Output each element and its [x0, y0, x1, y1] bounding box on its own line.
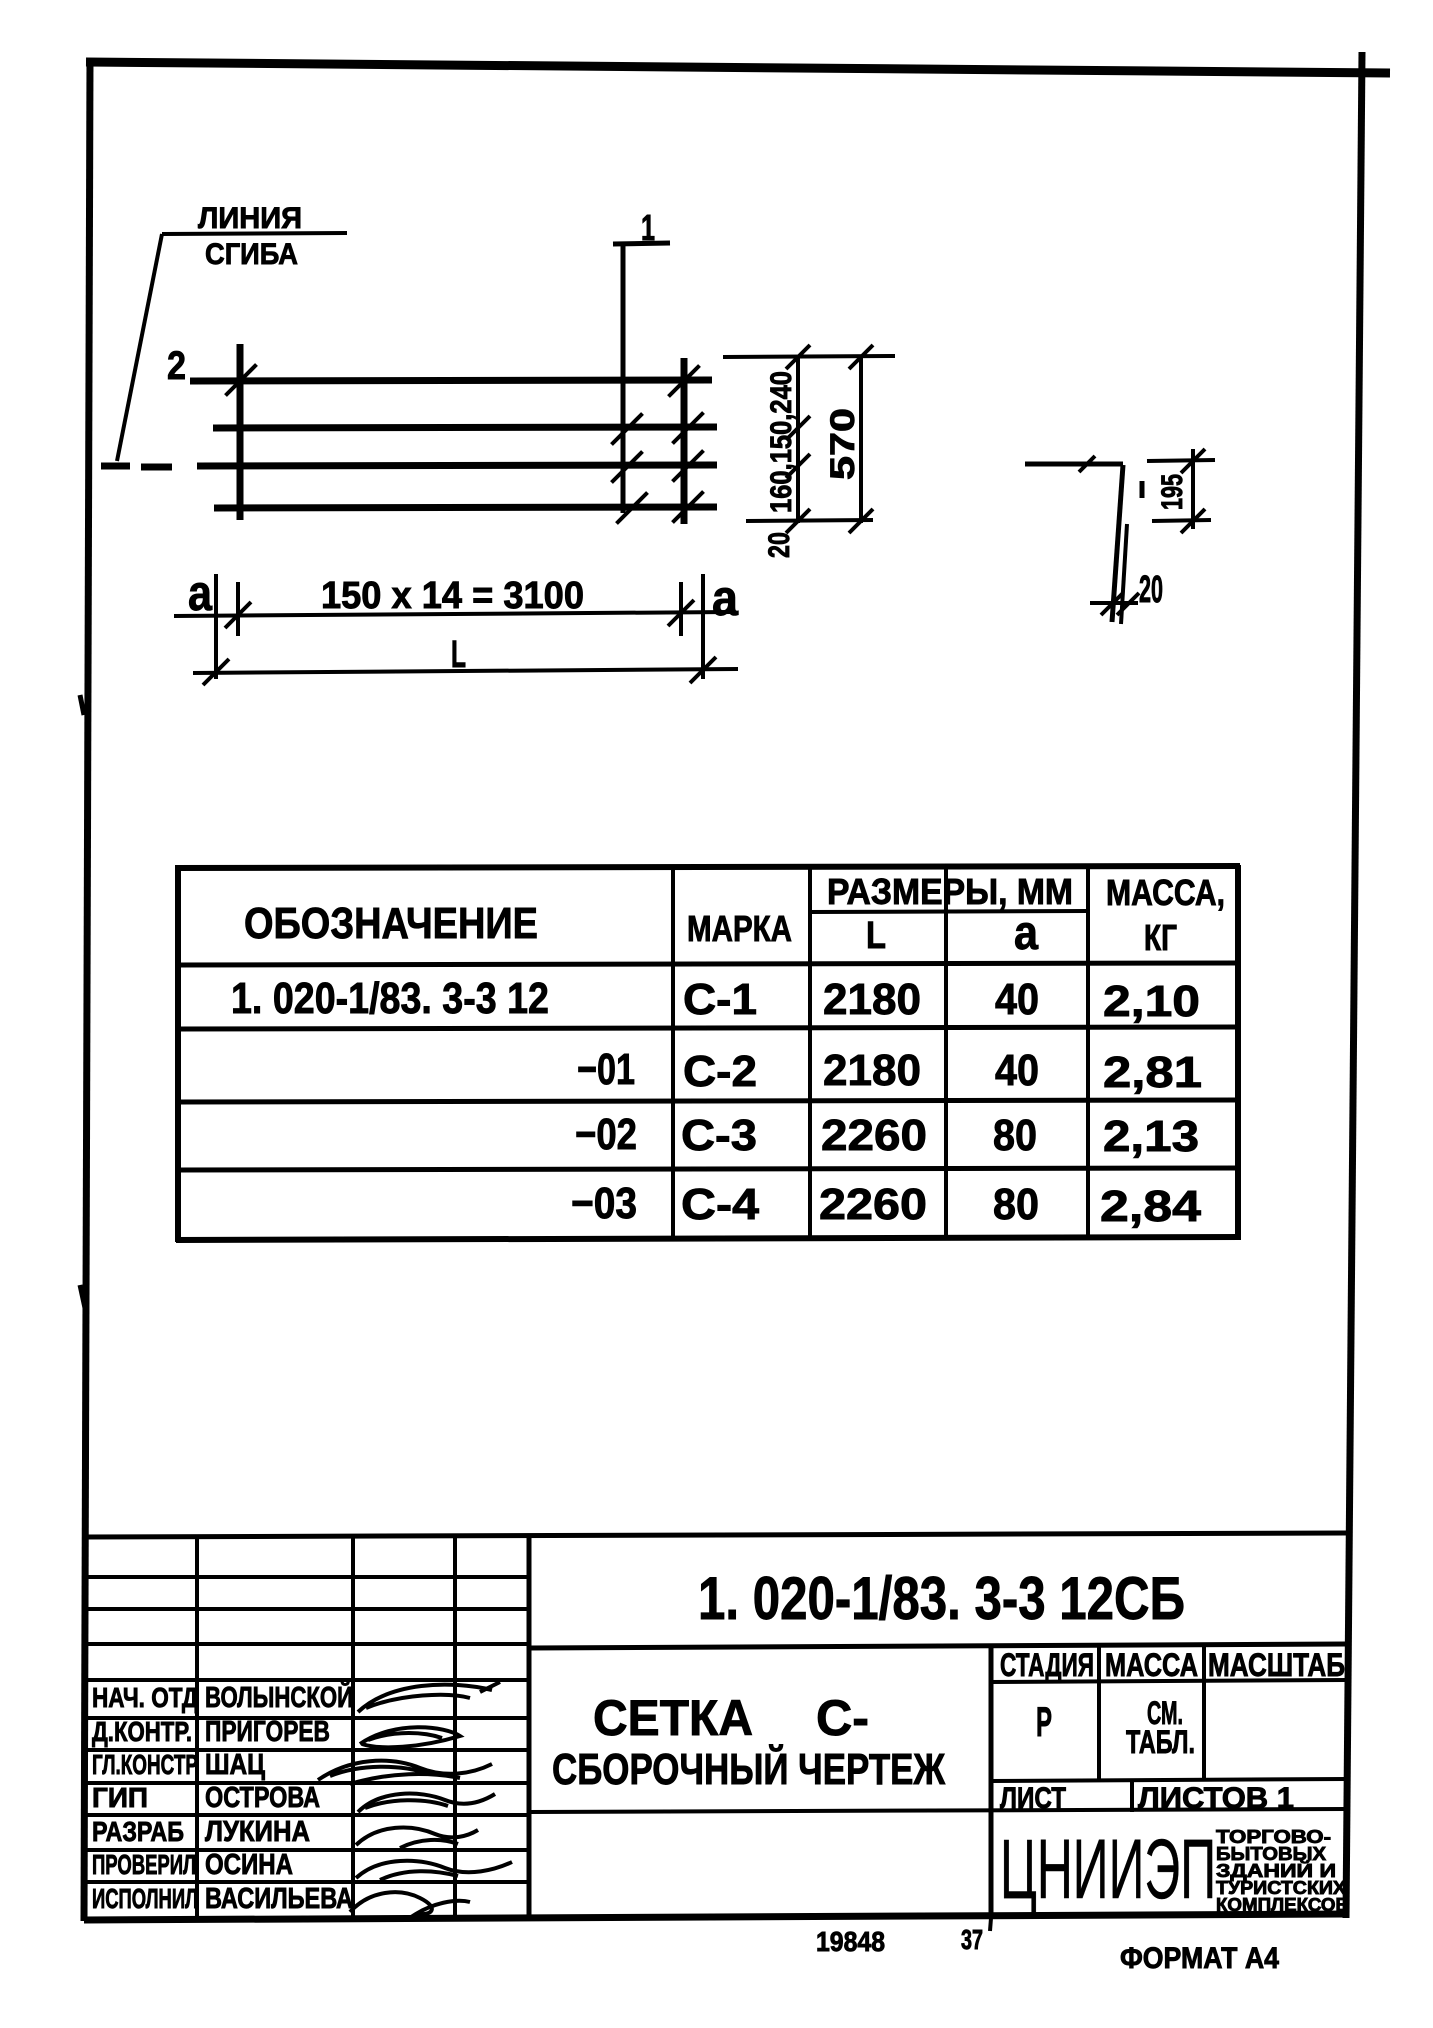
svg-text:195: 195 — [1156, 474, 1189, 510]
svg-text:МАСШТАБ: МАСШТАБ — [1208, 1647, 1345, 1683]
svg-text:ФОРМАТ А4: ФОРМАТ А4 — [1120, 1942, 1279, 1975]
svg-text:ВАСИЛЬЕВА: ВАСИЛЬЕВА — [205, 1883, 353, 1915]
svg-text:СГИБА: СГИБА — [205, 238, 298, 271]
svg-text:С-1: С-1 — [683, 975, 757, 1024]
svg-text:ОСТРОВА: ОСТРОВА — [205, 1782, 320, 1814]
svg-text:20: 20 — [1139, 569, 1163, 611]
svg-text:ГИП: ГИП — [92, 1782, 148, 1813]
svg-text:С-2: С-2 — [683, 1047, 757, 1096]
svg-text:РАЗМЕРЫ, ММ: РАЗМЕРЫ, ММ — [827, 871, 1073, 912]
svg-text:−01: −01 — [577, 1045, 635, 1094]
svg-text:ПРОВЕРИЛ: ПРОВЕРИЛ — [92, 1849, 196, 1880]
svg-text:СТАДИЯ: СТАДИЯ — [1000, 1647, 1094, 1683]
svg-text:ОСИНА: ОСИНА — [205, 1849, 293, 1881]
svg-text:СБОРОЧНЫЙ ЧЕРТЕЖ: СБОРОЧНЫЙ ЧЕРТЕЖ — [552, 1743, 945, 1794]
svg-text:МАССА,: МАССА, — [1106, 872, 1225, 913]
svg-text:2,81: 2,81 — [1103, 1048, 1202, 1097]
svg-text:−02: −02 — [575, 1110, 637, 1159]
svg-text:160,150,240: 160,150,240 — [765, 371, 798, 513]
svg-text:КГ: КГ — [1144, 917, 1177, 958]
svg-text:Д.КОНТР.: Д.КОНТР. — [92, 1716, 192, 1747]
svg-text:1. 020-1/83. 3-3 12СБ: 1. 020-1/83. 3-3 12СБ — [698, 1565, 1185, 1632]
svg-text:Р: Р — [1036, 1698, 1052, 1745]
svg-text:40: 40 — [995, 975, 1039, 1024]
svg-text:ТАБЛ.: ТАБЛ. — [1126, 1724, 1195, 1760]
svg-text:ШАЦ: ШАЦ — [205, 1749, 265, 1781]
svg-text:2180: 2180 — [823, 1046, 921, 1095]
svg-text:ЛУКИНА: ЛУКИНА — [205, 1816, 310, 1848]
svg-text:570: 570 — [824, 408, 862, 480]
svg-text:2,84: 2,84 — [1100, 1182, 1202, 1231]
svg-text:80: 80 — [993, 1111, 1037, 1160]
svg-text:а: а — [188, 565, 213, 621]
svg-text:ОБОЗНАЧЕНИЕ: ОБОЗНАЧЕНИЕ — [244, 899, 538, 948]
svg-text:40: 40 — [995, 1046, 1039, 1095]
svg-text:МАРКА: МАРКА — [687, 908, 792, 949]
svg-text:2180: 2180 — [823, 975, 921, 1024]
svg-text:20: 20 — [763, 532, 796, 558]
svg-text:ВОЛЫНСКОЙ: ВОЛЫНСКОЙ — [205, 1680, 353, 1714]
svg-text:С-3: С-3 — [681, 1111, 757, 1160]
svg-text:2: 2 — [167, 344, 186, 388]
svg-text:ГЛ.КОНСТР: ГЛ.КОНСТР — [92, 1749, 198, 1780]
svg-text:ПРИГОРЕВ: ПРИГОРЕВ — [205, 1716, 330, 1748]
svg-text:L: L — [866, 915, 886, 957]
svg-text:СЕТКА: СЕТКА — [593, 1690, 753, 1746]
svg-text:ЦНИИЭП: ЦНИИЭП — [1000, 1822, 1216, 1916]
svg-text:С-: С- — [816, 1690, 869, 1746]
svg-text:1. 020-1/83. 3-3 12: 1. 020-1/83. 3-3 12 — [231, 974, 549, 1023]
svg-text:НАЧ. ОТД: НАЧ. ОТД — [92, 1682, 198, 1713]
svg-text:а: а — [712, 570, 739, 626]
svg-text:а: а — [1014, 907, 1038, 960]
svg-text:2260: 2260 — [819, 1180, 927, 1229]
svg-text:2,10: 2,10 — [1103, 977, 1200, 1026]
svg-text:80: 80 — [993, 1180, 1039, 1229]
svg-text:КОМПЛЕКСОВ: КОМПЛЕКСОВ — [1216, 1895, 1349, 1915]
svg-text:37: 37 — [961, 1924, 983, 1955]
svg-text:2,13: 2,13 — [1103, 1112, 1199, 1161]
svg-text:150 х 14 = 3100: 150 х 14 = 3100 — [321, 575, 584, 617]
svg-text:ЛИНИЯ: ЛИНИЯ — [198, 202, 302, 235]
svg-text:МАССА: МАССА — [1105, 1647, 1198, 1683]
svg-text:ЛИСТОВ 1: ЛИСТОВ 1 — [1138, 1782, 1294, 1815]
svg-text:ЛИСТ: ЛИСТ — [1000, 1782, 1066, 1815]
svg-text:С-4: С-4 — [681, 1180, 760, 1229]
svg-text:РАЗРАБ: РАЗРАБ — [92, 1816, 184, 1847]
svg-text:ИСПОЛНИЛ: ИСПОЛНИЛ — [92, 1883, 198, 1914]
svg-text:2260: 2260 — [821, 1111, 927, 1160]
svg-text:L: L — [451, 634, 466, 676]
svg-text:19848: 19848 — [816, 1926, 885, 1957]
svg-text:−03: −03 — [571, 1179, 637, 1228]
